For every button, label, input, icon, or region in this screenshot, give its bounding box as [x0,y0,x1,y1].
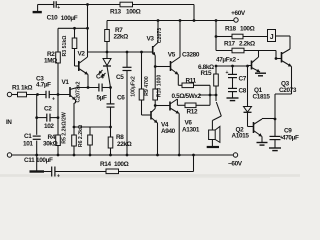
svg-text:C10: C10 [47,14,58,21]
svg-text:C2: C2 [44,106,52,113]
svg-text:R14: R14 [100,161,111,168]
svg-text:4.7µF: 4.7µF [36,82,51,89]
svg-text:V3: V3 [147,36,155,43]
svg-text:100µFx2: 100µFx2 [131,76,137,97]
svg-text:R5 2.2kΩ/2W: R5 2.2kΩ/2W [61,112,67,144]
svg-text:470µF: 470µF [282,135,299,142]
svg-text:R13: R13 [110,8,121,15]
svg-text:1kΩ: 1kΩ [21,84,32,91]
svg-text:2.2kΩ: 2.2kΩ [239,41,255,48]
svg-text:C11: C11 [24,157,35,164]
svg-text:101: 101 [23,141,33,148]
svg-text:C1815: C1815 [253,94,271,101]
svg-text:100µF: 100µF [61,15,78,22]
svg-text:R8: R8 [116,134,124,141]
svg-text:100Ω: 100Ω [126,8,141,15]
svg-text:R10 1000: R10 1000 [157,75,163,98]
svg-text:C7: C7 [239,76,247,83]
svg-text:C3280: C3280 [182,51,200,58]
svg-text:J: J [270,34,274,41]
svg-text:1MΩ: 1MΩ [44,58,57,65]
svg-text:A1015: A1015 [232,133,250,140]
svg-text:5µF: 5µF [97,95,108,102]
svg-text:100Ω: 100Ω [240,26,255,33]
svg-text:0.5Ω/5Wx2: 0.5Ω/5Wx2 [172,93,202,100]
svg-text:R12: R12 [187,109,198,116]
svg-text:100µF: 100µF [36,157,53,164]
svg-text:R18: R18 [225,26,236,33]
svg-text:+: + [57,5,60,11]
svg-text:IN: IN [6,119,12,126]
svg-text:R17: R17 [224,41,235,48]
svg-text:C1: C1 [24,133,32,140]
svg-text:C8: C8 [239,88,247,95]
svg-text:+60V: +60V [231,10,246,17]
svg-text:C5: C5 [116,74,124,81]
svg-text:30kΩ: 30kΩ [43,141,58,148]
svg-text:V2: V2 [78,51,86,58]
svg-text:R3 51kΩ: R3 51kΩ [62,36,68,57]
svg-text:+: + [226,70,229,76]
svg-text:22kΩ: 22kΩ [117,141,132,148]
svg-text:A940: A940 [161,128,176,135]
svg-text:+: + [52,97,55,103]
svg-text:R6 2.2kΩ: R6 2.2kΩ [78,125,84,147]
svg-text:R11: R11 [186,78,197,85]
svg-text:R15: R15 [201,70,212,77]
svg-text:+: + [57,174,60,180]
svg-text:C2073x2: C2073x2 [75,81,81,102]
svg-text:C6: C6 [117,95,125,102]
svg-text:47µFx2 -: 47µFx2 - [216,57,239,64]
svg-text:A1301: A1301 [182,127,200,134]
svg-text:C2073: C2073 [279,87,297,94]
svg-text:−60V: −60V [228,161,243,168]
svg-text:R9 4700: R9 4700 [144,76,150,96]
svg-text:102: 102 [44,123,54,130]
svg-text:R1: R1 [12,84,20,91]
svg-text:V5: V5 [168,51,176,58]
svg-text:V1: V1 [62,79,70,86]
svg-text:V6: V6 [185,120,193,127]
svg-text:100Ω: 100Ω [114,161,129,168]
svg-text:22kΩ: 22kΩ [114,34,129,41]
svg-text:C9: C9 [284,128,292,135]
